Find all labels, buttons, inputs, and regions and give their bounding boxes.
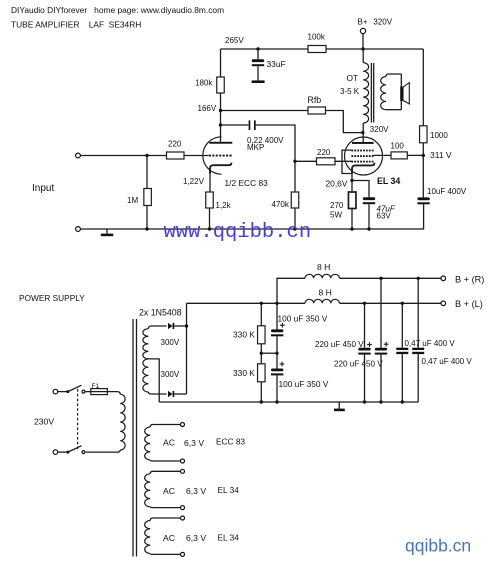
mains terminal top	[53, 389, 58, 394]
heater winding 6,3V ECC83	[150, 425, 182, 428]
switch S1a	[58, 391, 67, 393]
resistor 220 grid stopper EL34	[317, 158, 336, 165]
B+ L rail	[187, 302, 306, 304]
EL34 cathode hook	[352, 163, 374, 174]
svg-text:311 V: 311 V	[430, 150, 452, 160]
svg-text:B + (R): B + (R)	[455, 275, 484, 285]
svg-text:POWER SUPPLY: POWER SUPPLY	[19, 293, 85, 303]
B+ R rail	[277, 278, 305, 303]
B+ (R) terminal	[441, 276, 446, 281]
svg-text:1000: 1000	[430, 131, 448, 140]
capacitor 33uF decoupling	[257, 49, 259, 59]
wire 220 to ECC83 grid	[184, 155, 209, 157]
filter cap 0,47uF 400V no1	[401, 302, 404, 305]
svg-text:EL 34: EL 34	[218, 533, 240, 543]
svg-text:166V: 166V	[198, 104, 217, 113]
node EL34 grid	[293, 160, 296, 163]
tube U2 EL34 envelope	[345, 137, 383, 175]
EL34 cathode lead	[351, 172, 353, 181]
svg-text:6,3 V: 6,3 V	[184, 438, 204, 448]
svg-text:230V: 230V	[34, 417, 54, 427]
heater winding 6,3V EL34 no1	[150, 471, 182, 474]
input jack top terminal	[76, 153, 81, 158]
output transformer secondary winding	[386, 74, 401, 77]
PSU ground rail	[159, 401, 418, 403]
bleeder 330K lower	[258, 364, 266, 382]
svg-text:B+: B+	[358, 18, 368, 27]
resistor 1,2k cathode ECC83	[206, 192, 214, 208]
svg-text:EL 34: EL 34	[218, 485, 240, 495]
svg-text:0,47 uF 400 V: 0,47 uF 400 V	[405, 339, 456, 348]
resistor 270 5W cathode	[351, 181, 353, 193]
transformer core	[132, 319, 134, 557]
svg-text:300V: 300V	[161, 370, 180, 379]
svg-text:AC: AC	[163, 438, 175, 448]
fuse F1	[85, 391, 115, 393]
svg-text:6,3 V: 6,3 V	[186, 533, 206, 543]
wire 1000 to node 311V	[422, 143, 424, 156]
choke 8H right channel	[305, 274, 339, 278]
svg-text:1,2k: 1,2k	[216, 201, 232, 210]
tube U1 1/2 ECC83 triode envelope arc	[203, 137, 222, 174]
svg-text:B + (L): B + (L)	[455, 299, 483, 309]
svg-text:330 K: 330 K	[233, 368, 255, 378]
filter cap 220uF 450V no2	[379, 277, 382, 280]
PSU ground symbol	[338, 402, 340, 409]
transformer primary winding 230V	[115, 392, 120, 395]
svg-text:DIYaudio DIYforever home pag: DIYaudio DIYforever home page: www.diyau…	[11, 5, 224, 15]
svg-text:EL 34: EL 34	[377, 176, 400, 186]
filter cap 100uF 350V lower	[276, 353, 278, 368]
B+ (L) terminal	[441, 301, 446, 306]
capacitor 0,22uF 400V MKP coupling	[249, 120, 251, 130]
wire EL34 plate to 320V node	[362, 133, 364, 142]
EL34 plate bar	[352, 142, 374, 144]
svg-text:300V: 300V	[161, 338, 180, 347]
capacitor 47uF 63V cathode bypass	[352, 181, 369, 198]
node 166V	[219, 109, 222, 112]
resistor 100 screen	[391, 152, 407, 159]
node 311V	[422, 154, 425, 157]
capacitor 10uF 400V	[422, 156, 424, 198]
ECC83 plate bar	[209, 142, 232, 144]
wire plate to coupling cap	[221, 124, 249, 126]
node 320V plate	[361, 131, 364, 134]
svg-text:8 H: 8 H	[319, 288, 332, 298]
svg-text:100: 100	[391, 142, 405, 151]
svg-text:220 uF 450 V: 220 uF 450 V	[334, 360, 383, 369]
wire 100 to 311V node	[407, 154, 423, 156]
node B+ rail	[361, 47, 364, 50]
node EL34 cathode	[350, 179, 353, 182]
ground bottom rail of amplifier	[80, 228, 424, 230]
svg-text:6,3 V: 6,3 V	[186, 486, 206, 496]
svg-text:2x 1N5408: 2x 1N5408	[139, 308, 182, 318]
wire 220 to EL34 grid	[335, 160, 352, 162]
svg-text:265V: 265V	[225, 36, 244, 45]
node plate coupling	[219, 123, 222, 126]
ECC83 cathode hook	[210, 163, 231, 174]
svg-text:10uF 400V: 10uF 400V	[427, 187, 467, 196]
resistor Rfb	[308, 107, 326, 114]
node input/1M junction	[145, 154, 148, 157]
top supply rail	[221, 48, 424, 50]
B+ terminal	[360, 28, 365, 33]
mains terminal bottom	[53, 450, 58, 455]
wire EL34 screen to 100 resistor	[373, 154, 391, 156]
filter cap 100uF 350V upper	[275, 302, 278, 305]
svg-text:3-5 K: 3-5 K	[340, 87, 360, 96]
svg-text:ECC 83: ECC 83	[216, 437, 245, 447]
resistor 220 grid stopper ECC83	[167, 152, 185, 159]
switch S1b	[58, 451, 67, 453]
svg-text:Input: Input	[32, 183, 54, 194]
wire 166V feedback line	[221, 110, 309, 112]
rectifier output riser	[186, 303, 188, 394]
node 33uF	[256, 47, 259, 50]
svg-text:5W: 5W	[330, 211, 342, 220]
svg-text:320V: 320V	[373, 18, 392, 27]
EL34 grid dotted rows	[351, 150, 353, 152]
resistor 180k plate load	[217, 77, 225, 93]
svg-text:OT: OT	[347, 73, 359, 83]
wire input to grid node	[80, 155, 166, 157]
svg-text:8 H: 8 H	[317, 262, 330, 272]
wire grid node to 220 resistor	[295, 160, 317, 162]
HV secondary winding lower 300V	[143, 359, 149, 392]
filter cap 0,47uF 400V no2	[417, 277, 420, 280]
svg-text:270: 270	[330, 201, 344, 210]
svg-text:AC: AC	[163, 486, 175, 496]
ECC83 grid dotted line	[209, 155, 211, 157]
resistor 470k grid leak	[294, 161, 296, 192]
wire ECC83 plate riser	[220, 49, 222, 142]
ECC83 cathode lead	[209, 172, 211, 192]
svg-text:100k: 100k	[308, 33, 326, 42]
svg-text:33uF: 33uF	[267, 59, 286, 69]
svg-text:20,6V: 20,6V	[326, 179, 348, 189]
svg-text:320V: 320V	[370, 125, 389, 134]
svg-text:0,47 uF 400 V: 0,47 uF 400 V	[422, 357, 473, 366]
wire rail right drop	[422, 49, 424, 126]
svg-text:1M: 1M	[127, 196, 138, 205]
wire Rfb to 320V node	[326, 111, 363, 133]
diode D2 1N5408	[168, 391, 173, 397]
svg-text:220 uF 450 V: 220 uF 450 V	[315, 340, 364, 349]
filter cap 220uF 450V no1	[363, 302, 366, 305]
input jack bottom terminal	[76, 227, 81, 232]
svg-text:220: 220	[168, 140, 182, 149]
heater winding 6,3V EL34 no2	[150, 518, 182, 521]
output transformer core	[370, 63, 372, 123]
svg-text:www.qqibb.cn: www.qqibb.cn	[164, 221, 312, 244]
svg-text:100 uF 350 V: 100 uF 350 V	[278, 314, 328, 324]
wire coupling cap to EL34 grid node	[256, 125, 295, 161]
output transformer OT primary winding	[362, 49, 364, 63]
svg-text:MKP: MKP	[247, 143, 264, 152]
svg-text:100 uF 350 V: 100 uF 350 V	[279, 379, 329, 389]
diode D1 1N5408	[168, 323, 173, 329]
wire B+ to rail	[362, 34, 364, 49]
bleeder 330K upper	[260, 302, 263, 305]
choke 8H left channel	[305, 299, 339, 303]
svg-text:220: 220	[317, 148, 331, 157]
svg-text:AC: AC	[163, 533, 175, 543]
svg-text:Rfb: Rfb	[308, 95, 322, 105]
resistor 1000	[420, 126, 428, 143]
HV secondary winding upper 300V	[148, 326, 166, 329]
svg-text:TUBE AMPLIFIER LAF SE34RH: TUBE AMPLIFIER LAF SE34RH	[11, 20, 141, 30]
speaker	[400, 74, 402, 87]
svg-text:63V: 63V	[377, 212, 392, 221]
EL34 suppressor tie	[342, 150, 352, 173]
svg-text:qqibb.cn: qqibb.cn	[405, 536, 471, 556]
svg-text:1,22V: 1,22V	[183, 177, 205, 186]
resistor 100k decoupling	[308, 46, 326, 53]
bleeder midpoint link	[260, 344, 262, 364]
ground symbol at input	[106, 229, 108, 234]
wire 1,2k to ground rail	[209, 208, 211, 229]
HV center tap to ground	[148, 359, 159, 402]
svg-text:F1: F1	[92, 383, 100, 390]
resistor 1M input load	[146, 156, 148, 189]
svg-text:180k: 180k	[195, 79, 213, 88]
switch gang dashed link	[77, 389, 79, 449]
svg-text:330 K: 330 K	[233, 330, 255, 340]
svg-text:1/2 ECC 83: 1/2 ECC 83	[225, 178, 269, 188]
svg-text:470k: 470k	[272, 200, 290, 209]
